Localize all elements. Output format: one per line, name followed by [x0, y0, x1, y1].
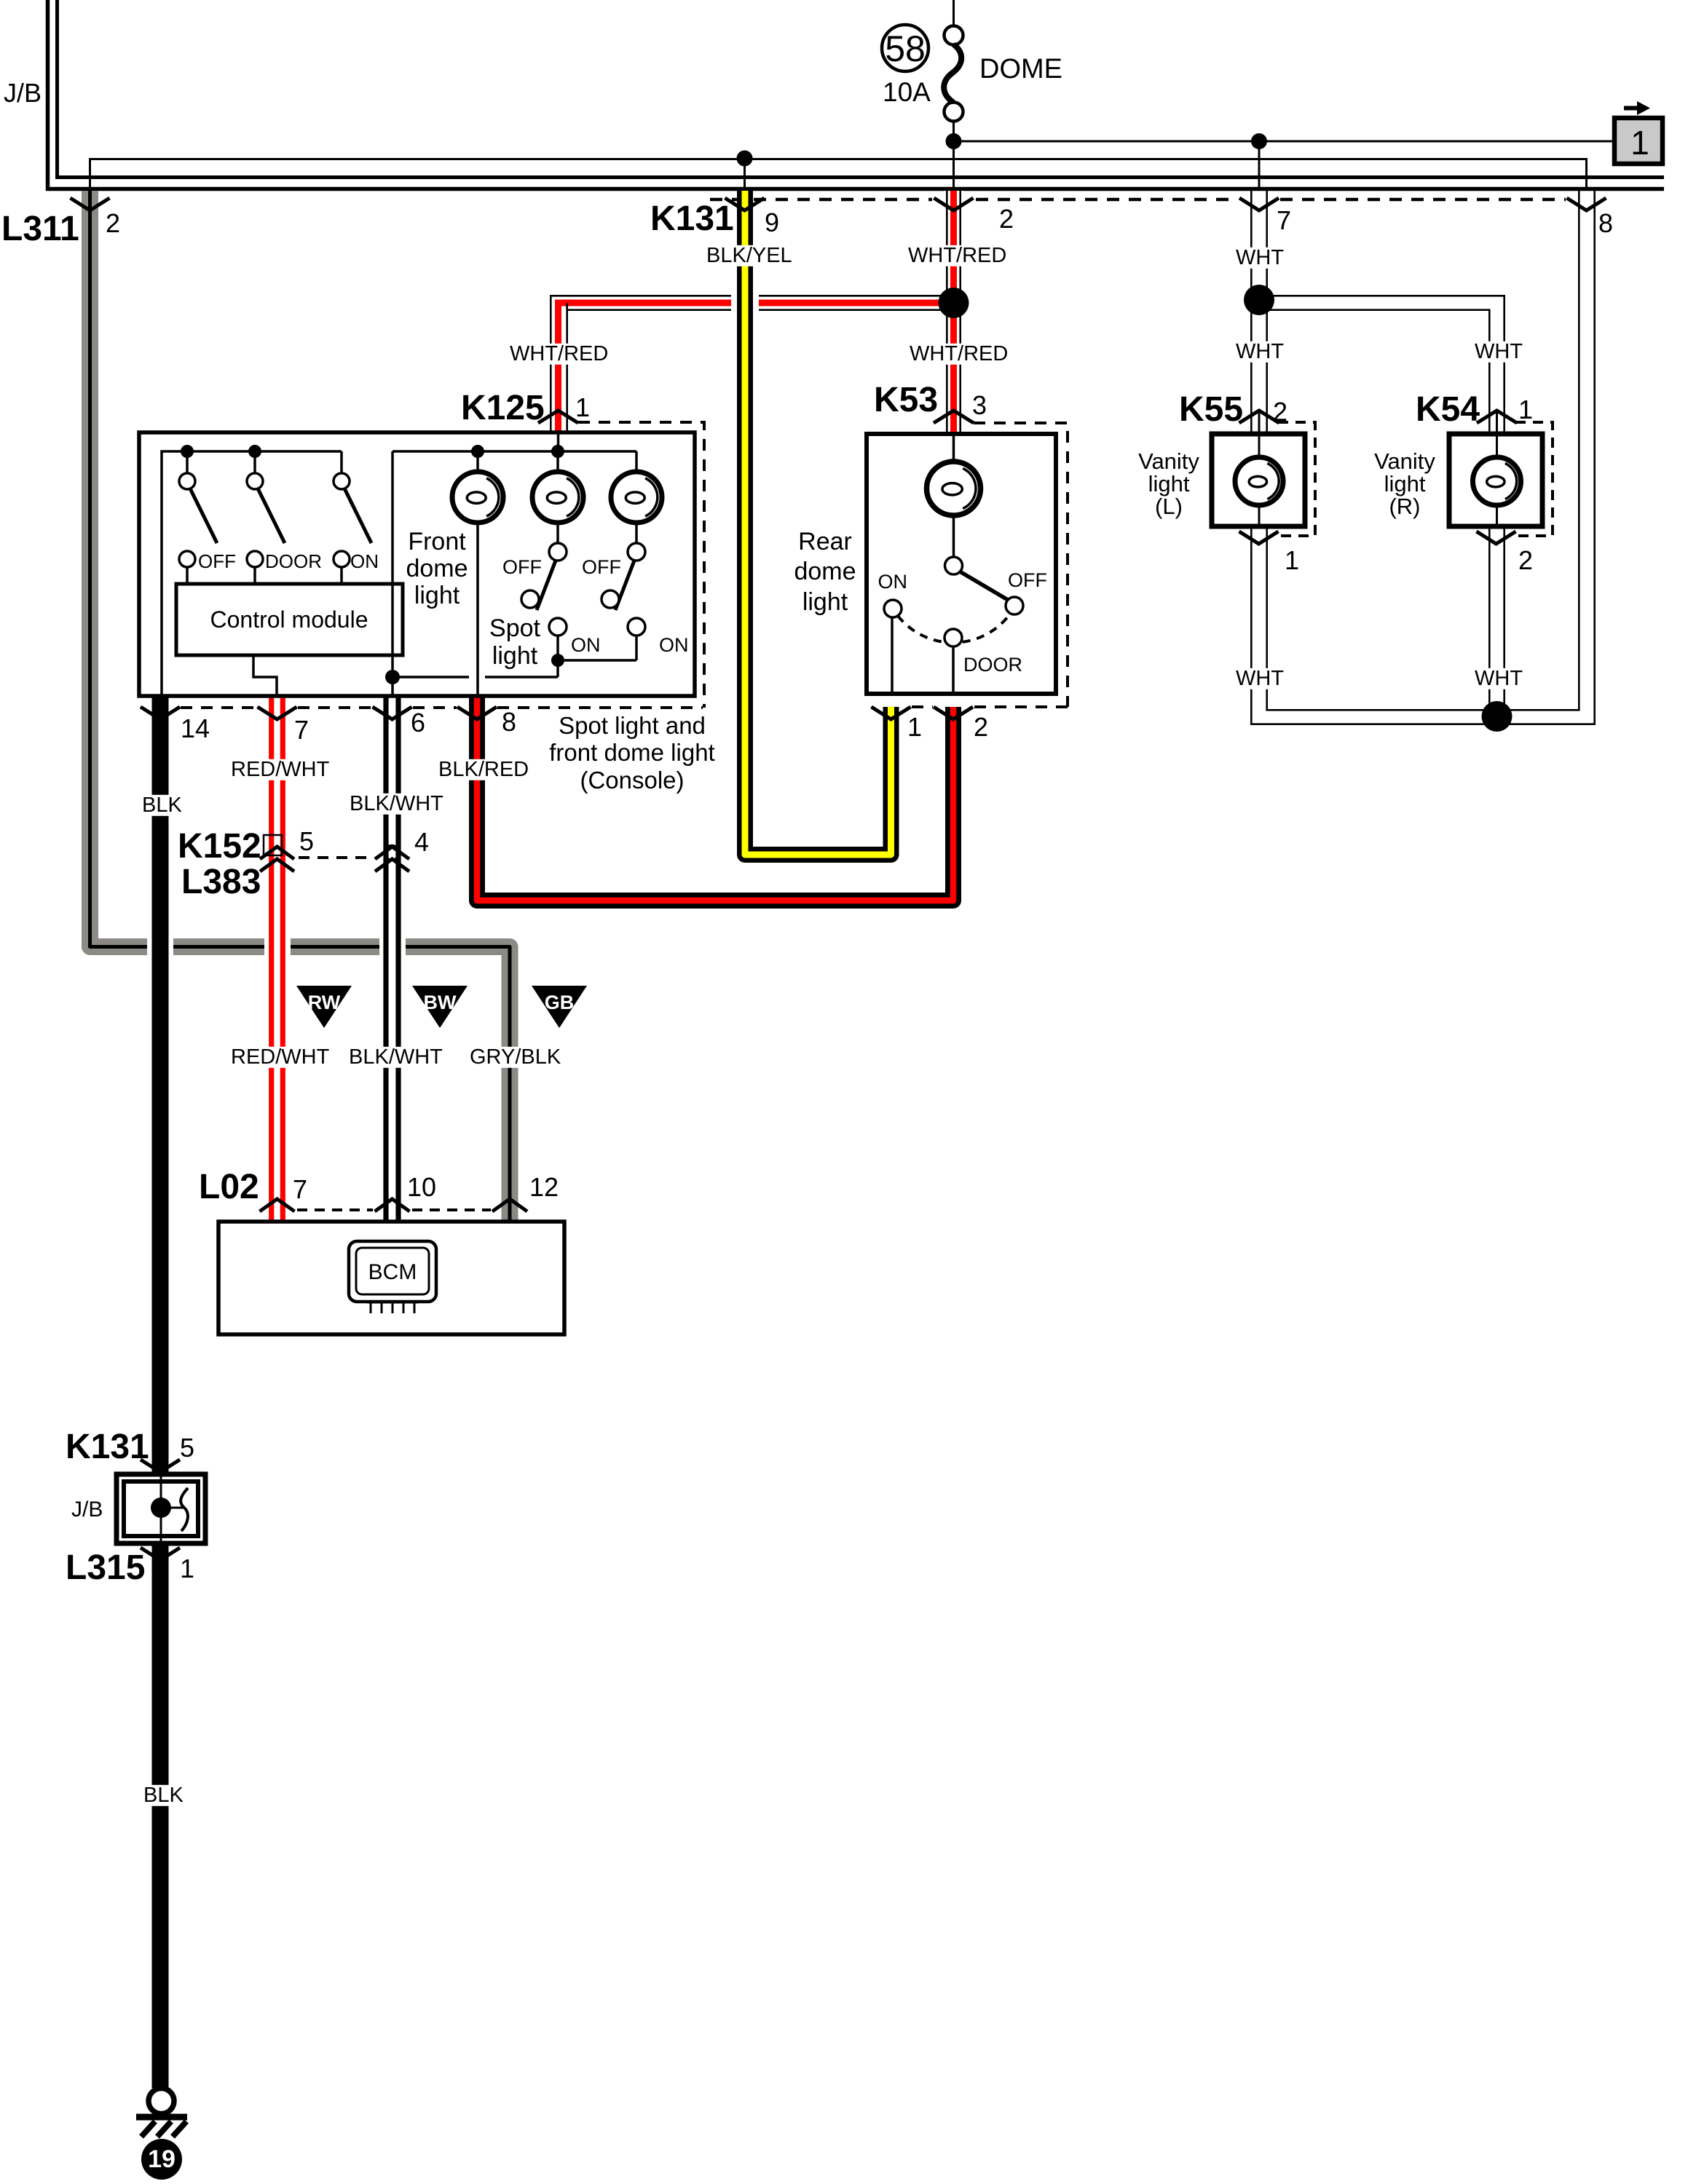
svg-text:BLK/RED: BLK/RED	[438, 758, 529, 781]
svg-text:OFF: OFF	[502, 556, 542, 578]
svg-text:BLK/YEL: BLK/YEL	[706, 244, 792, 267]
svg-text:J/B: J/B	[4, 78, 42, 108]
connector chevron K131 pin 9	[725, 198, 765, 210]
svg-text:WHT: WHT	[1475, 667, 1523, 690]
selector switch 2 top contact	[253, 451, 256, 473]
svg-text:5: 5	[180, 1433, 194, 1463]
junction dot WHT	[1244, 285, 1274, 315]
svg-text:7: 7	[294, 715, 309, 745]
svg-text:WHT: WHT	[1236, 246, 1284, 269]
svg-text:GB: GB	[545, 992, 575, 1013]
connector K152/L383 on BLK/WHT	[375, 847, 409, 859]
svg-text:BLK/WHT: BLK/WHT	[350, 792, 443, 815]
connector chevron L311 pin 2	[71, 198, 110, 210]
selector switch 1 lever	[190, 488, 217, 543]
junction dot selector OFF	[181, 445, 194, 458]
svg-text:ON: ON	[659, 634, 689, 656]
svg-text:(R): (R)	[1389, 494, 1420, 519]
wire: J/B internal line A (fuse output to pin7 and box 1)	[954, 141, 1615, 143]
arrow above box 1	[1624, 106, 1638, 111]
selector switch 1 top contact	[186, 451, 189, 473]
connector chevron K125 pin 14	[141, 707, 180, 719]
label WHT/RED left branch	[507, 344, 590, 365]
svg-text:BLK: BLK	[143, 1784, 184, 1807]
connector chevron K55 pin2	[1239, 411, 1279, 423]
svg-text:DOME: DOME	[979, 54, 1062, 84]
box BCM	[218, 1222, 564, 1334]
junction dot bulb2 feed (pin1 entry)	[551, 445, 564, 458]
K125 internal spot return wires	[551, 654, 564, 667]
spot switch L	[556, 523, 559, 543]
svg-text:58: 58	[885, 28, 926, 69]
svg-text:K131: K131	[650, 199, 734, 238]
spot switch R	[635, 523, 638, 543]
svg-text:front dome light: front dome light	[549, 739, 714, 766]
junction dot bulb1 feed	[471, 445, 484, 458]
label WHT/RED lower	[907, 344, 990, 365]
svg-text:light: light	[414, 582, 460, 609]
spot light bulb R	[635, 451, 638, 472]
junction dot WHT vanity splice	[1482, 701, 1513, 732]
svg-text:2: 2	[106, 208, 120, 238]
svg-text:K54: K54	[1416, 390, 1480, 429]
svg-text:WHT/RED: WHT/RED	[510, 342, 608, 365]
junction dot line A pin 7	[1251, 133, 1267, 149]
wire BLK K125 pin14 to ground	[147, 935, 173, 959]
wire BLK/WHT K125 pin6 to L02 pin10	[379, 935, 406, 959]
connector K152/L383 on RED/WHT	[260, 847, 294, 859]
wire WHT K54 pin2 down to splice	[1489, 526, 1504, 716]
connector chevron K125 pin 7	[258, 707, 297, 719]
svg-text:K152: K152	[178, 827, 261, 866]
connector chevron L02 pin 12	[492, 1199, 527, 1211]
svg-text:1: 1	[1630, 124, 1649, 162]
wire WHT branch to K54 pin1	[1267, 296, 1504, 434]
K125 dashed connector outline	[578, 422, 704, 708]
selector switch 3 lever	[344, 488, 371, 543]
front dome light bulb	[476, 451, 479, 472]
svg-text:K53: K53	[874, 381, 938, 419]
svg-text:3: 3	[972, 390, 987, 420]
svg-text:1: 1	[180, 1554, 194, 1583]
label WHT K54 lower	[1472, 668, 1510, 689]
BCM icon	[349, 1241, 436, 1302]
label BLK/YEL	[703, 245, 786, 266]
box K125 spot light and front dome light console	[139, 432, 695, 696]
connector chevron K54 pin 2	[1477, 531, 1516, 544]
junction dot fuse output	[946, 133, 962, 149]
svg-text:K55: K55	[1179, 390, 1243, 429]
K125 internal bulb rail	[393, 450, 636, 453]
connector chevron K53 pin 2	[934, 707, 973, 719]
svg-text:ON: ON	[350, 550, 379, 572]
svg-text:19: 19	[148, 2145, 175, 2173]
wire WHT K55 pin1 down to splice	[1251, 526, 1497, 724]
connector chevron K125 pin1	[538, 411, 578, 423]
svg-text:dome: dome	[794, 558, 856, 585]
svg-text:BLK/WHT: BLK/WHT	[349, 1045, 443, 1069]
selector switch 3 top contact	[340, 451, 343, 473]
wire: J/B bus outer line	[48, 0, 1665, 189]
wire: J/B bus inner line	[58, 0, 1665, 178]
svg-text:BLK: BLK	[142, 794, 182, 817]
K125 internal wire pin14 riser and top rail	[162, 451, 342, 696]
connector chevron K54 pin1	[1477, 411, 1517, 423]
svg-text:Spot: Spot	[489, 614, 540, 642]
svg-text:6: 6	[411, 708, 425, 737]
svg-text:1: 1	[1518, 395, 1533, 424]
connector chevron K53 pin3	[934, 411, 974, 423]
svg-text:GRY/BLK: GRY/BLK	[470, 1045, 561, 1069]
svg-text:K131: K131	[66, 1428, 149, 1466]
wire destination tag triangle RW	[296, 986, 352, 1028]
svg-text:WHT: WHT	[1236, 667, 1284, 690]
wire GRY/BLK L311 pin2 to L02 pin12	[90, 191, 510, 1222]
svg-text:2: 2	[999, 204, 1014, 234]
connector chevron K131 pin 7	[1239, 198, 1279, 210]
svg-text:OFF: OFF	[1008, 569, 1047, 591]
connector K131 dashed row	[710, 198, 932, 202]
svg-text:light: light	[1148, 471, 1190, 496]
control module box	[176, 584, 403, 655]
svg-text:WHT/RED: WHT/RED	[910, 342, 1008, 365]
label WHT pin7 upper	[1233, 248, 1271, 269]
connector chevron K53 pin 1	[872, 707, 911, 719]
junction dot pin6 node	[385, 670, 400, 684]
wire: riser to K131 pin 7	[1258, 141, 1261, 191]
selector switch 3 lower contact	[334, 551, 350, 567]
label RED/WHT lower	[228, 1047, 311, 1068]
selector switch 2 lever	[258, 488, 285, 543]
svg-text:OFF: OFF	[198, 550, 236, 572]
spot light bulb L	[556, 451, 559, 472]
fuse 58 DOME 10A	[944, 26, 963, 45]
svg-text:Vanity: Vanity	[1138, 448, 1199, 474]
label BLK/RED	[435, 759, 518, 780]
svg-text:2: 2	[974, 712, 988, 742]
box K55 vanity light	[1278, 422, 1315, 536]
svg-text:J/B: J/B	[71, 1497, 103, 1522]
svg-text:BCM: BCM	[368, 1260, 417, 1284]
svg-text:Rear: Rear	[798, 528, 852, 555]
K53 internal wires to pins	[891, 617, 894, 694]
svg-text:WHT/RED: WHT/RED	[908, 244, 1006, 267]
svg-text:8: 8	[1598, 208, 1613, 238]
junction dot selector DOOR	[248, 445, 261, 458]
connector chevron K131 pin 2	[934, 198, 974, 210]
svg-text:1: 1	[907, 712, 922, 742]
connector chevron L315 pin1	[141, 1548, 180, 1560]
wire: fuse lead	[953, 0, 955, 191]
svg-text:2: 2	[1273, 397, 1287, 427]
svg-text:light: light	[802, 588, 848, 616]
svg-text:WHT: WHT	[1236, 340, 1284, 363]
svg-text:10A: 10A	[883, 77, 931, 107]
selector switch 2 lower contact	[247, 551, 263, 567]
svg-text:BW: BW	[424, 992, 457, 1013]
svg-text:Control module: Control module	[210, 606, 368, 633]
svg-text:9: 9	[765, 207, 779, 237]
connector chevron K131 pin 8	[1567, 198, 1606, 210]
svg-text:1: 1	[1285, 545, 1299, 575]
svg-text:ON: ON	[571, 634, 601, 656]
svg-text:12: 12	[529, 1172, 559, 1202]
K53 dashed connector outline	[974, 423, 1068, 707]
label GRY/BLK	[467, 1047, 550, 1068]
svg-text:Spot light and: Spot light and	[559, 712, 706, 739]
connector chevron L02 pin 7	[260, 1199, 295, 1211]
svg-text:RW: RW	[308, 992, 341, 1013]
label WHT K55 upper	[1233, 341, 1271, 363]
svg-text:OFF: OFF	[582, 556, 621, 578]
wire: riser to K131 pin 9	[744, 158, 746, 191]
label BLK/WHT lower	[346, 1047, 429, 1068]
svg-text:5: 5	[299, 826, 314, 856]
svg-text:RED/WHT: RED/WHT	[231, 1045, 330, 1069]
K125 internal wire bulb1 to pin8	[476, 523, 479, 696]
off-page connector box 1	[1614, 118, 1663, 164]
junction dot WHT/RED	[939, 288, 969, 318]
svg-text:(L): (L)	[1155, 494, 1183, 519]
svg-text:8: 8	[502, 707, 516, 737]
svg-text:L311: L311	[1, 210, 79, 248]
label WHT/RED upper	[905, 245, 988, 266]
wire WHT K131 pin8 down and left to splice	[1497, 191, 1595, 724]
selector switch 1 lower contact	[179, 551, 195, 567]
box K54 vanity light	[1515, 422, 1553, 536]
svg-text:4: 4	[414, 827, 429, 857]
connector chevron L02 pin 10	[375, 1199, 410, 1211]
K125 internal riser pin6	[391, 451, 394, 670]
svg-text:dome: dome	[406, 555, 468, 582]
svg-text:light: light	[492, 642, 538, 670]
svg-text:7: 7	[1277, 205, 1291, 235]
connector L02 dashed row	[297, 1208, 491, 1211]
label BLK lower	[141, 1785, 179, 1806]
wire destination tag triangle BW	[412, 986, 468, 1028]
junction box J/B (lower)	[117, 1474, 205, 1543]
connector chevron K125 pin 6	[373, 707, 412, 719]
ground symbol 19	[149, 2089, 174, 2114]
junction dot line B pin 9	[737, 151, 753, 167]
wire destination tag triangle GB	[532, 986, 587, 1028]
svg-text:1: 1	[575, 392, 590, 422]
svg-text:14: 14	[181, 713, 210, 743]
svg-text:L383: L383	[181, 863, 261, 901]
svg-text:10: 10	[407, 1172, 436, 1202]
svg-text:WHT: WHT	[1475, 340, 1523, 363]
label BLK upper	[139, 795, 178, 816]
wire BLK/RED K125 pin8 to K53 pin2	[477, 696, 953, 901]
svg-text:DOOR: DOOR	[963, 654, 1022, 676]
label WHT K55 lower	[1233, 668, 1271, 689]
wire: J/B internal line B (GRY/BLK + BLK/YEL + WHT pin8 feeder)	[90, 159, 1587, 191]
label RED/WHT upper	[228, 759, 311, 780]
label BLK/WHT upper	[347, 794, 430, 815]
svg-text:DOOR: DOOR	[265, 550, 322, 572]
svg-text:ON: ON	[878, 571, 908, 593]
K53 switch dashed arc	[898, 613, 1011, 643]
svg-text:2: 2	[1518, 545, 1533, 575]
K125 internal wire control module to pin7	[253, 655, 277, 696]
label WHT K54 upper	[1472, 341, 1510, 363]
box K53 rear dome light	[867, 434, 1056, 694]
K53 switch	[953, 515, 955, 557]
svg-text:Vanity: Vanity	[1374, 448, 1435, 474]
wire WHT/RED branch to K125 pin1	[550, 294, 944, 312]
svg-text:7: 7	[293, 1174, 307, 1204]
svg-text:K125: K125	[461, 389, 545, 427]
svg-text:Front: Front	[408, 528, 466, 555]
connector chevron K55 pin 1	[1239, 531, 1279, 544]
wire WHT K131 pin7 down to K55 pin2	[1251, 191, 1266, 434]
connector chevron K125 pin 8	[457, 707, 497, 719]
wire RED/WHT K125 pin7 to L02 pin7	[264, 935, 291, 959]
svg-text:(Console): (Console)	[580, 767, 684, 794]
svg-text:L315: L315	[66, 1548, 145, 1587]
wire WHT/RED K131 pin2 down to K53 pin3	[944, 191, 963, 434]
svg-text:light: light	[1384, 471, 1426, 496]
svg-text:L02: L02	[199, 1168, 259, 1206]
K53 bulb	[953, 434, 955, 462]
wire BLK/YEL K131 pin9 to K53 pin1	[731, 290, 759, 315]
svg-text:RED/WHT: RED/WHT	[231, 758, 330, 781]
connector chevron K131 pin5	[141, 1460, 180, 1472]
